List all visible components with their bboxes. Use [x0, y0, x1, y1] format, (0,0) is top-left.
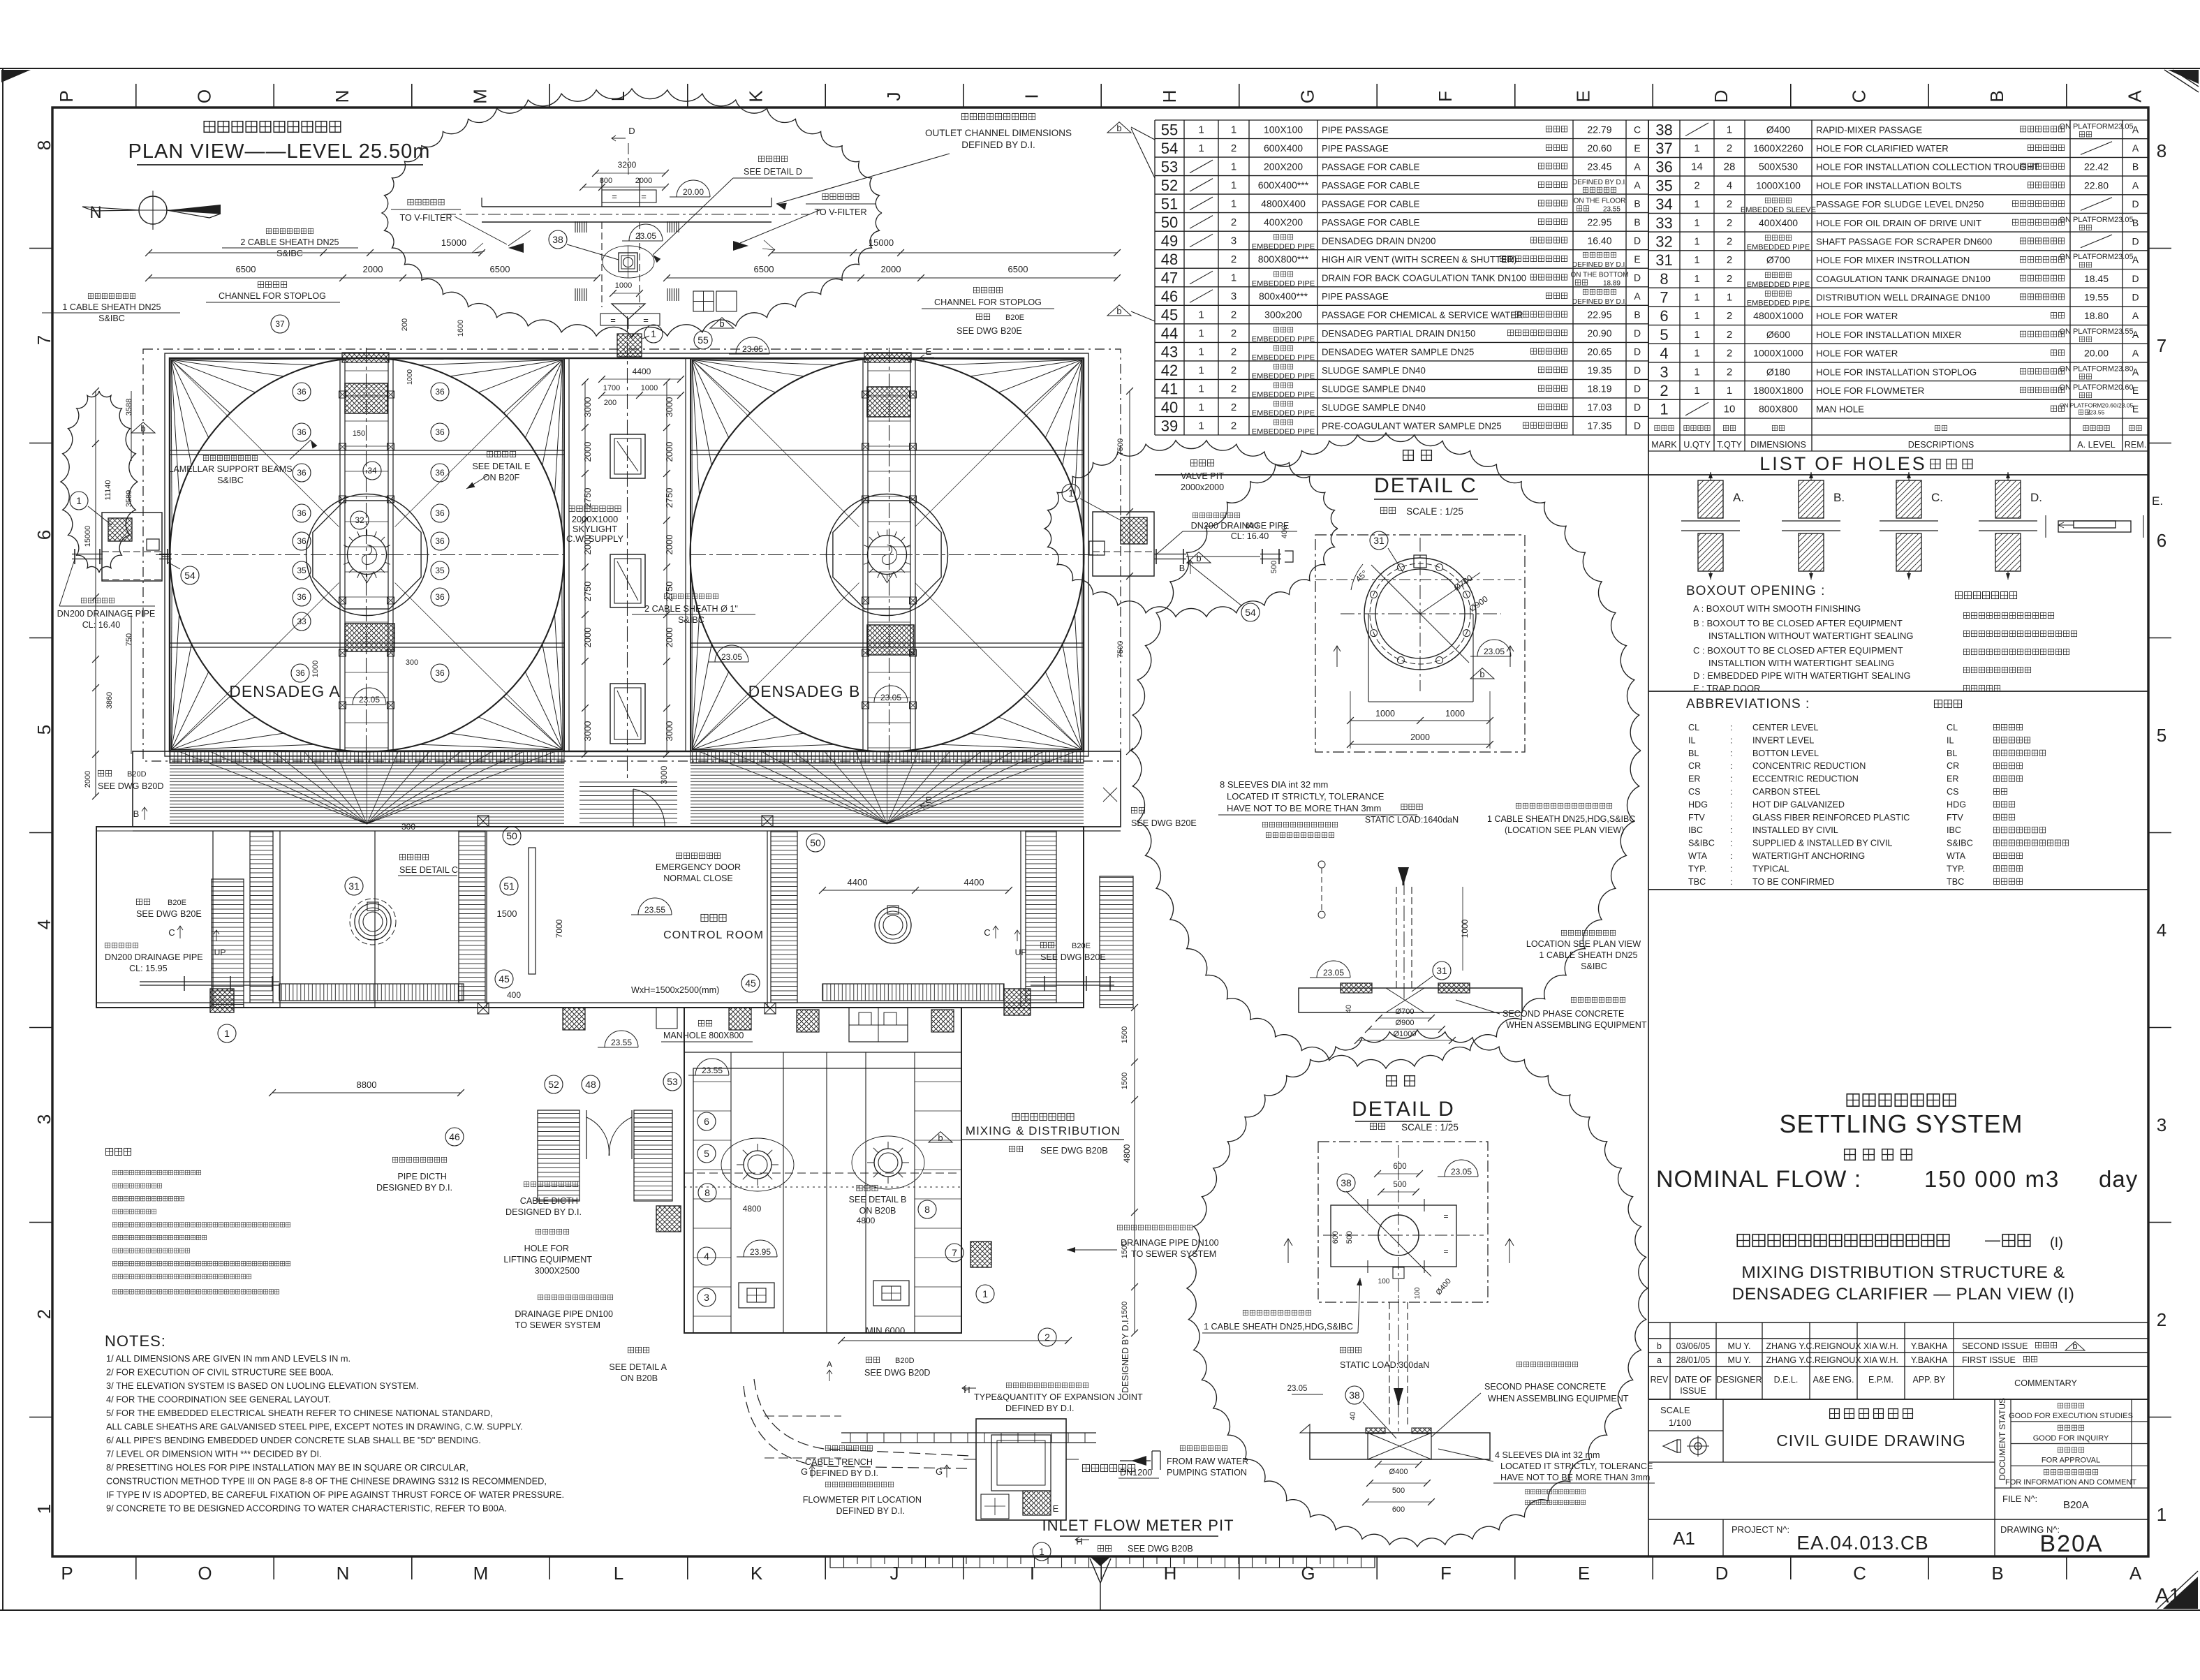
svg-text:2000: 2000 — [664, 535, 674, 555]
svg-text:9/ CONCRETE TO BE DESIGNED AC: 9/ CONCRETE TO BE DESIGNED ACCORDING TO … — [106, 1503, 507, 1514]
svg-text:1: 1 — [1231, 124, 1236, 135]
svg-text::: : — [1730, 735, 1733, 745]
svg-text:800X800: 800X800 — [1759, 404, 1798, 415]
svg-text:J: J — [883, 92, 904, 101]
svg-text:FIRST ISSUE: FIRST ISSUE — [1962, 1355, 2016, 1365]
svg-text:PRE-COAGULANT WATER SAMPLE DN2: PRE-COAGULANT WATER SAMPLE DN25 — [1322, 421, 1502, 432]
svg-text:500: 500 — [1270, 561, 1278, 573]
svg-text:46: 46 — [449, 1131, 460, 1142]
svg-text:2: 2 — [1231, 383, 1236, 395]
svg-text:36: 36 — [1655, 159, 1672, 176]
svg-text:PASSAGE FOR SLUDGE LEVEL DN250: PASSAGE FOR SLUDGE LEVEL DN250 — [1816, 199, 1984, 209]
svg-text:2000: 2000 — [881, 264, 901, 274]
svg-text:ON PLATFORM23.05: ON PLATFORM23.05 — [2059, 253, 2133, 261]
svg-text::: : — [1730, 723, 1733, 732]
svg-text:C.W. SUPPLY: C.W. SUPPLY — [566, 533, 623, 544]
svg-text:HOLE FOR CLARIFIED WATER: HOLE FOR CLARIFIED WATER — [1816, 143, 1949, 154]
svg-text::: : — [1730, 800, 1733, 809]
svg-text:6500: 6500 — [754, 264, 774, 274]
svg-text:DEFINED BY D.I.: DEFINED BY D.I. — [1572, 261, 1627, 269]
svg-text:STATIC LOAD:300daN: STATIC LOAD:300daN — [1340, 1360, 1429, 1370]
tank labels — [229, 682, 908, 705]
svg-text:EMBEDDED PIPE: EMBEDDED PIPE — [1252, 372, 1315, 381]
svg-text:=: = — [610, 315, 616, 325]
svg-text:3588: 3588 — [125, 399, 133, 415]
tank A center strip — [339, 348, 394, 762]
detail b triangles — [929, 668, 1494, 1143]
svg-text:38: 38 — [552, 234, 563, 245]
detail d plan — [1284, 1142, 1514, 1302]
svg-text:A: A — [1634, 161, 1641, 172]
svg-text:PIPE PASSAGE: PIPE PASSAGE — [1322, 291, 1389, 302]
svg-text:HOLE FOR WATER: HOLE FOR WATER — [1816, 348, 1898, 359]
svg-text:33: 33 — [1655, 214, 1672, 232]
boxout opening legend text — [1686, 584, 1914, 693]
svg-text:51: 51 — [503, 880, 515, 892]
svg-text:C: C — [984, 927, 990, 938]
inlet pit labels — [772, 1318, 1234, 1561]
svg-text:400X200: 400X200 — [1264, 216, 1303, 228]
detail c plan — [1315, 531, 1525, 752]
svg-text:1: 1 — [1727, 292, 1732, 304]
svg-text:A: A — [2132, 366, 2139, 377]
svg-text:3000X2500: 3000X2500 — [535, 1266, 579, 1276]
civil guide drawing title — [1776, 1409, 1966, 1450]
svg-text:3000: 3000 — [582, 721, 593, 742]
svg-text:TBC: TBC — [1688, 877, 1706, 887]
svg-text:(LOCATION SEE PLAN VIEW): (LOCATION SEE PLAN VIEW) — [1505, 825, 1624, 835]
svg-text:22.95: 22.95 — [1587, 309, 1611, 320]
to v-filter labels — [391, 193, 876, 223]
svg-text:EMBEDDED PIPE: EMBEDDED PIPE — [1252, 280, 1315, 288]
svg-text:WHEN ASSEMBLING EQUIPMENT: WHEN ASSEMBLING EQUIPMENT — [1488, 1394, 1629, 1403]
svg-text:B20E: B20E — [1005, 314, 1024, 322]
svg-text:C.: C. — [1931, 491, 1943, 504]
svg-text:42: 42 — [1161, 362, 1178, 379]
svg-text:COAGULATION TANK DRAINAGE DN10: COAGULATION TANK DRAINAGE DN100 — [1816, 274, 1991, 284]
svg-text:A&E ENG.: A&E ENG. — [1813, 1375, 1854, 1385]
svg-text:SEE DWG B20D: SEE DWG B20D — [864, 1368, 930, 1378]
svg-text:1000: 1000 — [641, 384, 658, 392]
svg-text:K: K — [746, 90, 767, 103]
svg-text:SEE DETAIL E: SEE DETAIL E — [472, 462, 530, 471]
svg-text:ZHANG Y.: ZHANG Y. — [1766, 1355, 1806, 1365]
svg-text:ON PLATFORM20.60/23.05: ON PLATFORM20.60/23.05 — [2060, 402, 2134, 409]
svg-text:23.05: 23.05 — [880, 693, 901, 702]
svg-text:18.89: 18.89 — [1603, 280, 1621, 288]
svg-text:36: 36 — [297, 536, 307, 546]
svg-text:2: 2 — [1727, 198, 1732, 210]
svg-text:18.80: 18.80 — [2084, 310, 2109, 321]
tank A balloons 36 — [271, 315, 449, 682]
svg-text:B: B — [2132, 217, 2139, 228]
svg-text:200: 200 — [604, 399, 617, 407]
svg-text:MIXING DISTRIBUTION STRUCTURE: MIXING DISTRIBUTION STRUCTURE & — [1741, 1263, 2065, 1282]
svg-text:BOTTON LEVEL: BOTTON LEVEL — [1752, 749, 1819, 758]
mixing bottom wells — [739, 1281, 909, 1308]
svg-text:2: 2 — [1231, 327, 1236, 339]
svg-text::: : — [1730, 877, 1733, 887]
svg-text:100: 100 — [1414, 1287, 1422, 1299]
svg-text:2: 2 — [1727, 254, 1732, 266]
svg-text:C.REIGNOUX: C.REIGNOUX — [1806, 1341, 1861, 1351]
svg-text:150 000 m3: 150 000 m3 — [1924, 1166, 2060, 1192]
svg-text:6/ ALL PIPE'S BENDING EMBEDDE: 6/ ALL PIPE'S BENDING EMBEDDED UNDER CON… — [106, 1435, 481, 1445]
svg-text:TYP.: TYP. — [1688, 864, 1706, 874]
svg-text:1: 1 — [1231, 179, 1236, 191]
svg-text:HOLE FOR FLOWMETER: HOLE FOR FLOWMETER — [1816, 385, 1924, 396]
svg-text:FLOWMETER PIT LOCATION: FLOWMETER PIT LOCATION — [803, 1495, 922, 1505]
svg-text:2: 2 — [1231, 216, 1236, 228]
svg-text:E: E — [1578, 1563, 1590, 1584]
svg-text:EMBEDDED PIPE: EMBEDDED PIPE — [1747, 281, 1810, 289]
svg-text:B: B — [1179, 563, 1185, 573]
svg-text:D: D — [2132, 236, 2139, 247]
svg-text:RAPID-MIXER PASSAGE: RAPID-MIXER PASSAGE — [1816, 124, 1922, 135]
svg-text:SEE DETAIL C: SEE DETAIL C — [399, 865, 458, 875]
svg-text:DRAINAGE PIPE DN100: DRAINAGE PIPE DN100 — [1121, 1238, 1219, 1248]
svg-text:7000: 7000 — [554, 919, 564, 938]
svg-text:5: 5 — [1660, 326, 1668, 344]
mixing labels — [661, 1020, 1124, 1156]
svg-text:PLAN VIEW——LEVEL 25.50m: PLAN VIEW——LEVEL 25.50m — [128, 140, 431, 163]
svg-text:1: 1 — [1694, 236, 1699, 248]
svg-text:TBC: TBC — [1947, 877, 1964, 887]
svg-text:=: = — [643, 315, 649, 325]
lamellar support label — [168, 440, 317, 485]
svg-text:DETAIL D: DETAIL D — [1352, 1098, 1455, 1121]
svg-text:MU Y.: MU Y. — [1728, 1341, 1751, 1351]
svg-text::: : — [1730, 864, 1733, 874]
svg-text:INVERT LEVEL: INVERT LEVEL — [1752, 735, 1814, 745]
tank B center mechanism — [833, 501, 941, 609]
svg-text:14: 14 — [1691, 161, 1703, 173]
svg-text:IL: IL — [1688, 735, 1696, 745]
svg-text:15000: 15000 — [441, 237, 466, 248]
svg-text:B20E: B20E — [168, 899, 186, 907]
detail d title — [1352, 1076, 1459, 1133]
svg-text:1000: 1000 — [1460, 919, 1470, 938]
svg-text:2: 2 — [1660, 382, 1668, 399]
svg-text:TO V-FILTER: TO V-FILTER — [399, 213, 452, 223]
svg-text:2750: 2750 — [582, 582, 593, 602]
svg-text:/23.55: /23.55 — [2088, 409, 2105, 416]
svg-text:S&IBC: S&IBC — [678, 615, 704, 625]
svg-text:1: 1 — [1198, 383, 1204, 395]
svg-text:36: 36 — [435, 592, 445, 602]
svg-text:3: 3 — [1231, 290, 1236, 302]
svg-text:2 CABLE SHEATH DN25: 2 CABLE SHEATH DN25 — [240, 237, 339, 247]
svg-text:7: 7 — [1660, 289, 1668, 307]
svg-text:HOLE FOR INSTALLATION COLLECTI: HOLE FOR INSTALLATION COLLECTION TROUGHT — [1816, 162, 2039, 172]
svg-text:23.05: 23.05 — [1323, 968, 1344, 978]
callout texts lower left — [370, 1157, 667, 1383]
svg-text:8: 8 — [704, 1187, 710, 1198]
svg-text:23.05: 23.05 — [1287, 1385, 1308, 1393]
svg-text:CL: CL — [1947, 723, 1958, 732]
svg-text:22.80: 22.80 — [2084, 179, 2109, 191]
gallery fan lines — [179, 751, 1076, 824]
svg-text:FOR INFORMATION AND COMMENT: FOR INFORMATION AND COMMENT — [2005, 1478, 2136, 1487]
svg-text:PASSAGE FOR CABLE: PASSAGE FOR CABLE — [1322, 161, 1420, 172]
svg-text:A: A — [2129, 1563, 2142, 1584]
svg-text::: : — [1730, 787, 1733, 797]
svg-text:EMBEDDED PIPE: EMBEDDED PIPE — [1747, 244, 1810, 252]
top inlet structure middle — [598, 291, 737, 407]
svg-text:17.03: 17.03 — [1587, 401, 1611, 413]
svg-text:150: 150 — [353, 429, 365, 438]
svg-text:200X200: 200X200 — [1264, 161, 1303, 172]
staircase hatches — [250, 831, 1056, 1003]
svg-text:8: 8 — [924, 1204, 930, 1215]
svg-text:23.05: 23.05 — [1484, 647, 1505, 656]
svg-text:=: = — [612, 191, 617, 202]
svg-text:1: 1 — [2157, 1504, 2166, 1525]
svg-text:1: 1 — [1694, 217, 1699, 229]
svg-text:DESIGNER: DESIGNER — [1716, 1375, 1762, 1385]
svg-text:19.35: 19.35 — [1587, 364, 1611, 376]
corridor center line — [627, 316, 628, 779]
svg-text:ON B20B: ON B20B — [859, 1206, 896, 1216]
svg-text:3: 3 — [1231, 235, 1236, 246]
svg-text:2: 2 — [1231, 401, 1236, 413]
svg-text:E: E — [2132, 385, 2139, 396]
svg-text:C : BOXOUT TO BE CLOSED AFTER: C : BOXOUT TO BE CLOSED AFTER EQUIPMENT — [1693, 645, 1903, 656]
svg-text:4: 4 — [34, 920, 54, 929]
svg-text:O: O — [198, 1563, 212, 1584]
svg-text:EMERGENCY DOOR: EMERGENCY DOOR — [656, 862, 741, 872]
margin column letters top — [56, 89, 2146, 104]
svg-text:600: 600 — [1331, 1231, 1340, 1244]
svg-text:M: M — [470, 89, 491, 104]
svg-text:HOT DIP GALVANIZED: HOT DIP GALVANIZED — [1752, 800, 1845, 809]
margin column ticks top — [136, 84, 2067, 108]
svg-text:Ø400: Ø400 — [1389, 1468, 1408, 1476]
svg-text:B: B — [2132, 161, 2139, 172]
svg-text:8 SLEEVES DIA int 32 mm: 8 SLEEVES DIA int 32 mm — [1220, 779, 1328, 790]
svg-text:CARBON STEEL: CARBON STEEL — [1752, 787, 1820, 797]
svg-text:1500: 1500 — [497, 908, 517, 919]
svg-text:800X800***: 800X800*** — [1258, 253, 1309, 265]
outer reference dashed rectangle — [143, 349, 1121, 761]
svg-text:NOMINAL FLOW :: NOMINAL FLOW : — [1656, 1166, 1861, 1193]
svg-text:2000x2000: 2000x2000 — [1181, 482, 1224, 492]
svg-text:TYPICAL: TYPICAL — [1752, 864, 1789, 874]
svg-text:DESIGNED BY D.I.: DESIGNED BY D.I. — [376, 1183, 452, 1193]
svg-text:SECOND PHASE CONCRETE: SECOND PHASE CONCRETE — [1484, 1382, 1606, 1392]
svg-text:S&IBC: S&IBC — [217, 476, 244, 485]
svg-text:U.QTY: U.QTY — [1683, 440, 1711, 450]
svg-text:B: B — [1634, 216, 1640, 228]
svg-text:2: 2 — [1727, 329, 1732, 341]
svg-text:23.55: 23.55 — [611, 1038, 632, 1047]
svg-text:3200: 3200 — [618, 160, 637, 170]
svg-text:17.35: 17.35 — [1587, 420, 1611, 432]
svg-text:ECCENTRIC REDUCTION: ECCENTRIC REDUCTION — [1752, 774, 1859, 784]
valve pit device B — [875, 906, 911, 943]
svg-text:B: B — [133, 809, 140, 819]
svg-text:SEE DWG B20B: SEE DWG B20B — [1128, 1544, 1193, 1554]
svg-text:6500: 6500 — [1008, 264, 1028, 274]
tank block outline — [165, 353, 1088, 756]
svg-text:2: 2 — [1727, 366, 1732, 378]
right pipe stub lower — [1031, 976, 1114, 991]
svg-text:2: 2 — [1044, 1332, 1050, 1343]
right valve pit cloud — [1044, 441, 1338, 617]
svg-text:36: 36 — [297, 508, 307, 518]
svg-text:DISTRIBUTION WELL DRAINAGE DN1: DISTRIBUTION WELL DRAINAGE DN100 — [1816, 293, 1990, 303]
svg-text:28: 28 — [1724, 161, 1736, 173]
valve pit device A — [350, 899, 396, 945]
svg-text:2000: 2000 — [363, 264, 383, 274]
svg-text:BOXOUT OPENING :: BOXOUT OPENING : — [1686, 584, 1825, 598]
svg-text:D: D — [1715, 1563, 1729, 1584]
svg-text:O: O — [194, 89, 215, 103]
svg-text:44: 44 — [1161, 325, 1178, 342]
svg-text:C.REIGNOUX: C.REIGNOUX — [1806, 1355, 1861, 1365]
svg-text:HOLE FOR OIL DRAIN OF DRIVE UN: HOLE FOR OIL DRAIN OF DRIVE UNIT — [1816, 218, 1981, 228]
svg-text:G: G — [1301, 1563, 1315, 1584]
svg-text:D: D — [1634, 272, 1641, 283]
svg-text:1: 1 — [1039, 1546, 1044, 1557]
svg-text:35: 35 — [1655, 177, 1672, 194]
svg-text:A: A — [1634, 179, 1641, 191]
svg-text:HIGH AIR VENT (WITH SCREEN & S: HIGH AIR VENT (WITH SCREEN & SHUTTER) — [1322, 254, 1517, 265]
margin row ticks left — [29, 249, 52, 1417]
svg-text:20.65: 20.65 — [1587, 346, 1611, 358]
emergency door — [633, 789, 665, 827]
svg-text:4400: 4400 — [633, 367, 651, 376]
svg-text:5: 5 — [2157, 725, 2166, 746]
svg-text:CABLE TRENCH: CABLE TRENCH — [805, 1457, 873, 1467]
svg-text:1/100: 1/100 — [1669, 1417, 1692, 1428]
svg-text:MU Y.: MU Y. — [1728, 1355, 1751, 1365]
svg-text:A: A — [2132, 179, 2139, 191]
svg-text:DESCRIPTIONS: DESCRIPTIONS — [1908, 440, 1974, 450]
svg-text:1: 1 — [1694, 348, 1699, 360]
svg-text:400: 400 — [507, 990, 521, 1000]
svg-text:1 CABLE SHEATH DN25,HDG,S&IBC: 1 CABLE SHEATH DN25,HDG,S&IBC — [1487, 814, 1635, 824]
svg-text:INSTALLTION WITH WATERTIGHT SE: INSTALLTION WITH WATERTIGHT SEALING — [1708, 658, 1894, 668]
svg-text:7/ LEVEL OR DIMENSION WITH **: 7/ LEVEL OR DIMENSION WITH *** DECIDED B… — [106, 1449, 322, 1459]
svg-text:1600: 1600 — [457, 320, 465, 337]
svg-text:3: 3 — [2157, 1114, 2166, 1135]
svg-text:CENTER LEVEL: CENTER LEVEL — [1752, 723, 1818, 732]
svg-text:CR: CR — [1947, 761, 1959, 771]
margin row numbers right — [2157, 140, 2166, 1525]
outlet channel callout — [776, 113, 1072, 209]
svg-text:31: 31 — [1436, 965, 1447, 976]
svg-text:1000X100: 1000X100 — [1756, 179, 1801, 191]
svg-text:DENSADEG B: DENSADEG B — [748, 682, 861, 700]
svg-text:H: H — [1076, 1536, 1082, 1547]
bottom folding ruler — [830, 1556, 1375, 1568]
svg-text:b: b — [2072, 1341, 2077, 1351]
svg-text:2: 2 — [1727, 348, 1732, 360]
svg-text:03/06/05: 03/06/05 — [1676, 1341, 1711, 1351]
right b triangle — [1187, 552, 1211, 563]
svg-text:7500: 7500 — [1116, 641, 1125, 658]
svg-text:ON B20F: ON B20F — [483, 473, 520, 482]
svg-text:D.: D. — [2030, 491, 2042, 504]
svg-text:1000: 1000 — [1445, 709, 1465, 719]
svg-text:UP: UP — [1015, 948, 1027, 957]
svg-text:N: N — [332, 90, 353, 103]
svg-text:40: 40 — [1161, 399, 1178, 416]
svg-text:ON THE BOTTOM: ON THE BOTTOM — [1571, 272, 1629, 279]
svg-text:CONCENTRIC REDUCTION: CONCENTRIC REDUCTION — [1752, 761, 1866, 771]
svg-text:b: b — [1196, 553, 1201, 563]
svg-text:DN1200: DN1200 — [1120, 1468, 1152, 1478]
tank A corner fans — [171, 359, 563, 751]
svg-text:1700: 1700 — [603, 384, 620, 392]
svg-text:8800: 8800 — [357, 1080, 377, 1090]
svg-text:DATE OF: DATE OF — [1674, 1375, 1712, 1385]
svg-text:S&IBC: S&IBC — [1688, 839, 1715, 848]
svg-text:E.: E. — [2152, 494, 2163, 508]
svg-text:600: 600 — [1393, 1163, 1406, 1171]
svg-text:TO BE CONFIRMED: TO BE CONFIRMED — [1752, 877, 1834, 887]
svg-text:D.E.L.: D.E.L. — [1774, 1375, 1799, 1385]
svg-text:2: 2 — [1231, 253, 1236, 265]
svg-text:500: 500 — [1393, 1181, 1406, 1189]
svg-text:NOTES:: NOTES: — [105, 1332, 166, 1350]
svg-text:38: 38 — [1341, 1177, 1352, 1188]
svg-text:36: 36 — [435, 536, 445, 546]
svg-text:WATERTIGHT ANCHORING: WATERTIGHT ANCHORING — [1752, 851, 1865, 861]
svg-text:6: 6 — [2157, 530, 2166, 551]
svg-text:48: 48 — [1161, 251, 1178, 268]
svg-text:2: 2 — [1727, 142, 1732, 154]
svg-text:500: 500 — [1392, 1487, 1405, 1495]
svg-text:500X530: 500X530 — [1759, 161, 1798, 172]
svg-text:OUTLET CHANNEL DIMENSIONS: OUTLET CHANNEL DIMENSIONS — [925, 128, 1072, 138]
stoplog slot hatches top — [575, 221, 679, 301]
svg-text:15000: 15000 — [84, 526, 92, 547]
svg-text:40: 40 — [1345, 1005, 1353, 1013]
svg-text:6500: 6500 — [236, 264, 256, 274]
svg-text:7: 7 — [952, 1247, 957, 1258]
svg-text:10: 10 — [1724, 404, 1736, 415]
svg-text:33: 33 — [297, 617, 307, 626]
list of holes table right part — [1648, 120, 2148, 451]
svg-text:SETTLING SYSTEM: SETTLING SYSTEM — [1779, 1110, 2023, 1138]
svg-text:NORMAL CLOSE: NORMAL CLOSE — [663, 874, 733, 883]
detail d section — [1287, 1299, 1655, 1514]
svg-text:300: 300 — [401, 822, 415, 832]
svg-text:ISSUE: ISSUE — [1680, 1386, 1706, 1396]
svg-text:GLASS FIBER REINFORCED PLASTIC: GLASS FIBER REINFORCED PLASTIC — [1752, 813, 1910, 823]
svg-text:600X400***: 600X400*** — [1258, 179, 1309, 191]
cable sheath label mid — [632, 594, 755, 625]
svg-text:WTA: WTA — [1947, 851, 1966, 861]
svg-text:IL: IL — [1947, 735, 1954, 745]
outside stair left — [212, 879, 244, 1008]
svg-text:22.79: 22.79 — [1587, 124, 1611, 135]
svg-text:REM.: REM. — [2125, 440, 2146, 450]
svg-text:WTA: WTA — [1688, 851, 1708, 861]
svg-text:1: 1 — [1198, 364, 1204, 376]
svg-text:BL: BL — [1947, 749, 1957, 758]
tank B corner fans — [692, 359, 1082, 751]
svg-text:b: b — [1479, 669, 1484, 679]
svg-text:500: 500 — [1345, 1231, 1354, 1244]
svg-text:DENSADEG A: DENSADEG A — [229, 682, 341, 700]
svg-text:8: 8 — [34, 140, 54, 150]
svg-text:2: 2 — [1231, 420, 1236, 432]
svg-text:47: 47 — [1161, 270, 1178, 287]
to v-filter arrows — [455, 209, 821, 253]
